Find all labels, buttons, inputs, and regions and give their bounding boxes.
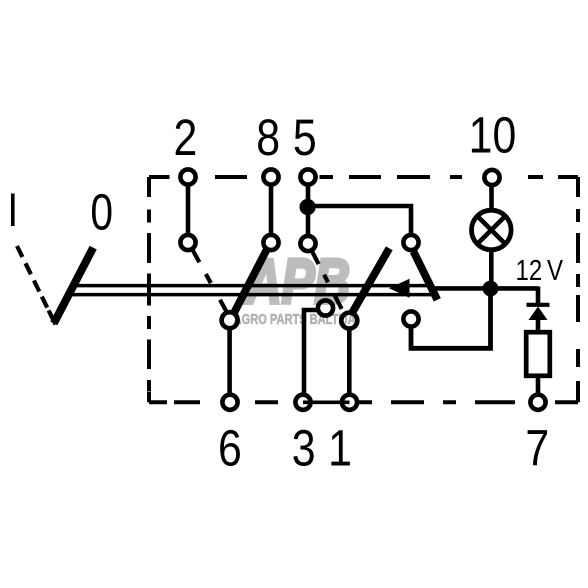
wire rail to diode (536, 287, 541, 304)
wire terminal 3 to terminal 1 (303, 400, 350, 404)
label 1 (328, 419, 352, 476)
label 7 (525, 419, 549, 476)
lever (position 0) (54, 248, 93, 324)
label 0 (lever position) (90, 183, 113, 240)
switch enclosure dashed border: right edge (576, 177, 580, 402)
terminal 1 stem wire (347, 331, 352, 395)
wire from node 5 to right contact (308, 206, 411, 233)
pivot 6 circle (222, 312, 238, 328)
svg-text:6: 6 (218, 419, 242, 476)
label I (lever position) (11, 194, 15, 227)
actuator bar bottom line (66, 293, 433, 297)
label 5 (293, 108, 317, 165)
label 2 (173, 108, 197, 165)
terminal 5 stem wire (306, 184, 311, 235)
terminal 10 top circle (484, 170, 499, 185)
wire contact 3 down to terminal 3 (304, 310, 318, 394)
svg-text:AGRO PARTS BALTIJA: AGRO PARTS BALTIJA (234, 311, 356, 328)
svg-text:2: 2 (173, 108, 197, 165)
actuator arrow (389, 279, 410, 298)
dashed alt position 2-6 (193, 250, 227, 311)
label 6 (218, 419, 242, 476)
diode D1 cathode bar (527, 303, 550, 307)
switch arm 1 (open) (352, 248, 389, 312)
contact right of 5 wire circle (403, 235, 418, 250)
svg-text:0: 0 (90, 183, 113, 240)
label 3 (292, 419, 316, 476)
terminal 2 top circle (180, 169, 195, 184)
wire actuator to 12V rail (431, 286, 538, 291)
terminal 6 bottom circle (222, 395, 237, 410)
terminal 7 bottom circle (530, 395, 545, 410)
terminal 3 bottom circle (295, 395, 310, 410)
svg-text:8: 8 (256, 108, 280, 165)
lever dashed (position I) (17, 246, 56, 325)
contact 5 lower circle (300, 236, 315, 251)
contact 8 lower circle (263, 235, 278, 250)
switch arm right (open) (414, 252, 438, 300)
switch arm 6-8 (closed) (234, 250, 267, 313)
svg-text:5: 5 (293, 108, 317, 165)
switch enclosure dashed border: top edge (149, 175, 578, 179)
label 8 (256, 108, 280, 165)
switch enclosure dashed border: left edge (147, 177, 151, 402)
svg-text:APB: APB (244, 247, 350, 317)
resistor R1 (526, 332, 550, 376)
watermark APB logo (234, 247, 356, 328)
node junction on 5 (300, 199, 316, 215)
wire junction down and left to contact (411, 289, 491, 349)
svg-text:1: 1 (328, 419, 352, 476)
terminal 5 top circle (300, 169, 315, 184)
contact 2 lower circle (180, 235, 195, 250)
node junction 12V (483, 281, 499, 297)
terminal 8 top circle (263, 169, 278, 184)
diode D1 triangle (529, 307, 548, 321)
contact 3 circle (318, 300, 333, 315)
terminal 1 bottom circle (342, 395, 357, 410)
label 12 V (516, 254, 543, 286)
svg-text:10: 10 (469, 106, 517, 163)
wire diode to resistor (536, 319, 541, 332)
pivot 1 circle (341, 313, 357, 329)
svg-text:3: 3 (292, 419, 316, 476)
svg-text:V: V (547, 254, 563, 286)
actuator bar top line (70, 284, 429, 288)
switch enclosure dashed border: bottom edge (149, 400, 578, 404)
terminal 10 stem wire (489, 185, 494, 211)
terminal 8 stem wire (269, 184, 274, 234)
terminal 2 stem wire (186, 184, 191, 234)
contact circle above L-wire (403, 311, 418, 326)
wire lamp to junction (489, 250, 494, 286)
wire resistor to terminal 7 (536, 378, 541, 394)
terminal 6 stem wire (227, 330, 232, 394)
dashed alt position 5-1 (311, 250, 343, 312)
label 10 (469, 106, 517, 163)
svg-text:12: 12 (516, 254, 543, 286)
lamp L1 (472, 210, 512, 250)
svg-text:7: 7 (525, 419, 549, 476)
